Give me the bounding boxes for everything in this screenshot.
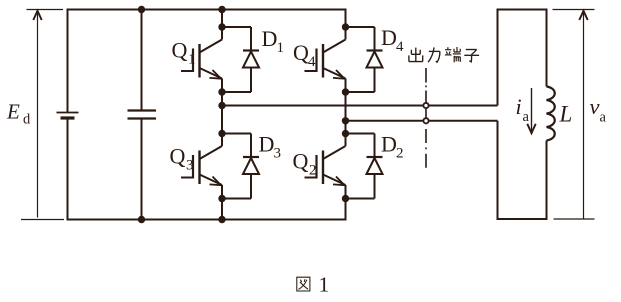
junction dot D4 top <box>342 23 349 30</box>
diode D3 <box>222 134 259 199</box>
caption figure kanji 図 <box>297 277 310 291</box>
capacitor C bottom plate <box>128 117 157 119</box>
junction dot D2 top <box>342 130 349 137</box>
wire output lower from right leg <box>346 120 498 122</box>
wire load loop bottom <box>498 121 547 219</box>
dash-dot cut line lower <box>425 129 427 170</box>
wire capacitor branch bottom <box>141 119 143 220</box>
measure Ed ticks and arrow <box>21 10 64 220</box>
output terminal upper <box>423 103 428 108</box>
junction dot bottom rail left leg <box>218 216 225 223</box>
wire right leg mid <box>345 79 347 147</box>
diode D1 <box>222 27 259 92</box>
wire terminal connector <box>425 104 427 122</box>
measure va ticks and arrow <box>553 10 595 220</box>
wire capacitor branch top <box>141 10 143 111</box>
wire bottom rail N with battery branch bottom and Q2 emitter rise <box>68 119 346 220</box>
wire output upper from left leg <box>222 105 498 107</box>
transistor Q2 <box>305 146 346 185</box>
junction dot top rail left leg <box>218 6 225 13</box>
svg-text:a: a <box>600 110 607 126</box>
junction dot right output tap <box>342 117 349 124</box>
transistor Q4 <box>305 40 346 79</box>
junction dot D1 top <box>218 23 225 30</box>
inductor L coil <box>547 87 555 141</box>
svg-text:L: L <box>559 102 573 127</box>
junction dot D3 bottom <box>218 195 225 202</box>
svg-text:3: 3 <box>274 146 282 162</box>
wire left leg bottom <box>221 185 223 220</box>
svg-text:D: D <box>381 25 397 50</box>
svg-text:Q: Q <box>170 144 186 169</box>
svg-text:v: v <box>590 94 600 119</box>
svg-text:E: E <box>6 100 20 124</box>
label output-terminals kanji 出力端子 <box>409 47 479 62</box>
svg-text:3: 3 <box>186 158 194 174</box>
junction dot left output tap <box>218 102 225 109</box>
junction dot D1 bottom <box>218 88 225 95</box>
svg-text:Q: Q <box>293 40 309 65</box>
svg-text:d: d <box>23 112 31 128</box>
svg-text:4: 4 <box>308 54 316 70</box>
svg-text:1: 1 <box>277 40 285 56</box>
current ia arrow <box>527 88 535 133</box>
svg-text:Q: Q <box>293 149 309 174</box>
wire load loop <box>498 10 547 106</box>
junction dot top rail capacitor <box>138 6 145 13</box>
dash-dot cut line upper <box>425 68 427 103</box>
transistor Q3 <box>181 146 222 185</box>
svg-text:Q: Q <box>172 38 188 63</box>
battery Ed short plate <box>61 116 75 119</box>
svg-text:1: 1 <box>319 273 330 297</box>
transistor Q1 <box>181 40 222 79</box>
svg-text:D: D <box>259 132 275 157</box>
capacitor C top plate <box>128 109 157 111</box>
wire left leg collector Q1 <box>221 10 223 40</box>
junction dot bottom rail capacitor <box>138 216 145 223</box>
junction dot D4 bottom <box>342 88 349 95</box>
svg-text:2: 2 <box>396 146 404 162</box>
junction dot D2 bottom <box>342 195 349 202</box>
svg-text:4: 4 <box>396 39 404 55</box>
svg-text:a: a <box>523 109 530 125</box>
svg-text:1: 1 <box>188 52 196 68</box>
svg-text:D: D <box>262 26 278 51</box>
svg-text:i: i <box>516 94 522 119</box>
wire left leg mid <box>221 79 223 147</box>
wire top rail P with battery branch top and Q4 collector drop <box>68 10 346 113</box>
diode D2 <box>346 134 383 199</box>
svg-text:2: 2 <box>309 163 317 179</box>
svg-text:D: D <box>381 132 397 157</box>
junction dot D3 top <box>218 130 225 137</box>
diode D4 <box>346 27 383 92</box>
battery Ed long plate <box>57 112 79 114</box>
output terminal lower <box>423 118 428 123</box>
